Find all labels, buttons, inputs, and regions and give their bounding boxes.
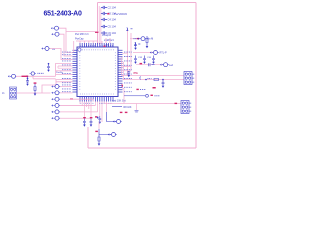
red speck row3 [140,63,143,64]
svg-text:Led: Led [169,64,174,67]
wire: drops from bus into top pins [80,38,110,43]
junction dot on P4 net [26,76,28,78]
wire: long vertical net from top border [97,3,99,45]
capacitor C6 top column [101,31,107,34]
wire: top border segment [98,2,197,4]
capacitor C22 under IC [90,119,93,125]
svg-text:C2 104: C2 104 [108,6,117,10]
connector circle P8 left column [51,104,52,106]
IC pin-number ring left [79,53,81,92]
connector circle P9 left column [51,111,52,113]
capacitor C9 beside IC left with ground [48,63,50,65]
wire: vertical beside IC left edge [73,41,75,52]
wire: parallel lower net [33,76,56,79]
wire: bus1 to upper-right connector [122,75,185,77]
connector circle P1 top-left [51,27,52,29]
IC pin-number ring top [80,49,115,51]
pin numbers under bottom pins [80,102,112,104]
wire: P1 long net to junction above IC [59,28,98,52]
bracket mark upper [127,28,133,31]
connector circle P3 [41,47,42,49]
wire: horizontal bus above IC [76,40,98,42]
wire: bottom-left riser to border [87,127,89,148]
svg-text:PwrCap: PwrCap [75,38,84,41]
capacitor C8 below P4 net with ground [27,78,29,80]
svg-text:J1: J1 [2,92,5,95]
IC U1 bottom pins [80,97,113,102]
red junction above IC [95,32,98,33]
header J1 2x3 left [10,87,17,99]
wire: vertical drops from IC bottom pins [80,99,106,122]
connector circle P12 bottom centre [108,133,109,135]
svg-text:PG: PG [134,71,139,75]
pin-1 indicator circle inside IC [78,48,81,51]
wire: right border segment [195,3,197,149]
net labels left of IC (tiny dashes) [62,52,71,92]
red ticks under IC right [120,112,123,113]
net labels right of IC (tiny dashes) [124,52,132,92]
red tick right [153,87,156,89]
small ground below risers [127,71,130,75]
wire: third top vertical [100,8,102,44]
svg-text:RTL-P: RTL-P [160,52,168,55]
row1: wire and connector circle [130,38,141,40]
wire: second top vertical [98,6,100,44]
header JP3 lower right [181,101,189,114]
connector circle P2 [51,33,52,35]
wire: extra left pin feeds [58,66,73,68]
main IC U1 body [77,47,118,97]
junction red tick on cap row [107,13,109,15]
row2: wire and connector circle P14 [133,52,153,54]
IC pin-number ring bottom [80,93,115,95]
connector circle P13 row1 [137,38,138,40]
resistor R5 vertical with arrow [34,82,37,83]
bracket mark lower [135,43,141,46]
bracket on bus2 [139,77,142,80]
wire: circle rows 1-2 into IC left pins [60,87,72,93]
svg-text:swdPwr4: swdPwr4 [104,39,114,42]
second label row under IC [112,106,122,108]
stack B: red tick, vertical, resistor, arrow [95,131,98,132]
wire: circle rows 3-6 to bottom drops [60,99,97,118]
wire: right pin feeds to risers [122,53,132,103]
resistor R20 on bus2 [154,79,159,81]
capacitor C4 top column [101,18,107,21]
svg-text:JtCap33: JtCap33 [102,34,112,37]
connector circle P11 [113,120,114,122]
junction dot bus2 [145,79,147,81]
capacitor C3 top column [101,12,107,15]
svg-text:C34: C34 [147,57,152,59]
svg-text:651-2403-A0: 651-2403-A0 [44,11,82,18]
red arc marker right of IC [122,85,123,88]
wire: twin verticals right of IC [128,29,132,76]
connector circle P7 left column [51,98,52,100]
svg-text:C4 104: C4 104 [108,18,117,22]
capacitor C36 with ground on bus2 [162,79,164,81]
wire: P4 net to IC [16,64,73,77]
red no-connect marks under IC [83,117,86,118]
capacitor C21 under IC [83,119,86,125]
svg-text:PwrVDD33: PwrVDD33 [114,12,127,16]
capacitor C5 top column [101,25,107,28]
connector circle P4 left [8,75,9,77]
capacitor C31 with ground [134,42,137,48]
svg-text:C33: C33 [138,57,143,59]
svg-text:C5 104: C5 104 [108,25,117,29]
ground cluster trio [134,56,137,62]
wire: vertical pink into stack B [98,122,100,129]
pin numbers above top pins [80,45,114,47]
IC U1 left pins [73,50,78,92]
IC U1 right pins [118,50,123,92]
wire: P3 to IC pin [50,49,73,60]
inline net-tie circle on upper row [30,73,31,75]
wire: P2 to bus above IC [60,34,73,56]
wire: bottom border segment [88,147,196,149]
capacitor C2 top column [101,6,107,9]
cap with ground on drop x96.5 [98,116,101,122]
red highlighted segment on P4 net [22,76,27,77]
svg-text:Pwr M33 3.3: Pwr M33 3.3 [75,33,89,36]
row3: wire, marks, connector circle P15 [136,64,163,66]
wire: drop + ground arrow [96,117,98,119]
red tick row3 [70,98,73,99]
wire: bus to lower-right connector [104,103,181,105]
connector circle P6 left column [51,92,52,94]
connector circle P5 left column [51,85,52,87]
stack A vertical to P11 [106,112,116,122]
wire: J1 bus across [17,80,73,93]
header JP2 upper right [184,72,192,85]
svg-text:R8 10K: R8 10K [124,106,132,109]
red tick before JP3 [175,103,178,104]
IC U1 top pins [80,43,113,47]
IC pin-number ring right [114,53,116,92]
connector circle P10 left column [51,117,52,119]
wire: bus2 to JP2 pin2 [124,79,185,81]
wire: vertical drop from lower bus [136,104,138,111]
resistor chain with arrow right [146,36,148,46]
mini row: net ties right of IC lower [136,89,138,90]
